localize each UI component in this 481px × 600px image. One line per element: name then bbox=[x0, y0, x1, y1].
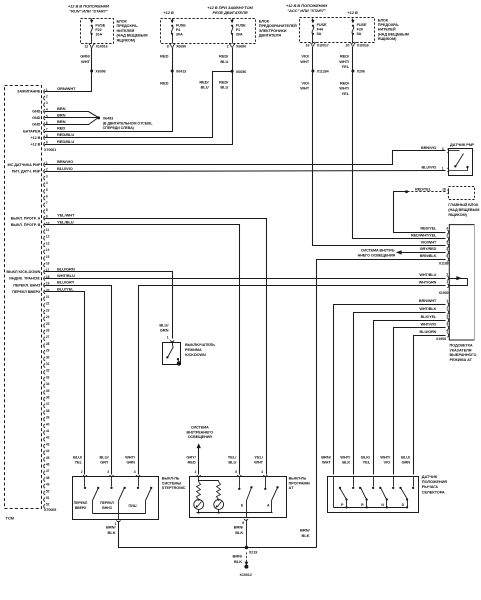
svg-text:YEL: YEL bbox=[342, 91, 350, 96]
svg-text:5: 5 bbox=[446, 240, 448, 244]
wire RED/BLU fuse F1 to splice X6656 bbox=[232, 48, 234, 72]
svg-text:8: 8 bbox=[46, 208, 48, 212]
wire RED/YEL to indicator unit pin4 bbox=[394, 192, 446, 233]
svg-text:YEL: YEL bbox=[363, 460, 371, 465]
selector switch D bbox=[413, 477, 415, 487]
steptronic switch box bbox=[73, 477, 159, 520]
svg-text:СИСТЕМЫ: СИСТЕМЫ bbox=[162, 481, 182, 485]
fuse box B2 (engine electronics) dashed enclosure bbox=[161, 19, 256, 44]
svg-text:2: 2 bbox=[446, 307, 448, 311]
svg-text:RED: RED bbox=[187, 460, 195, 465]
svg-text:YEL: YEL bbox=[74, 460, 82, 465]
svg-text:ВЫКЛ KICK-DOWN: ВЫКЛ KICK-DOWN bbox=[6, 270, 40, 274]
svg-text:+12 В: +12 В bbox=[30, 143, 40, 147]
kickdown case ground dot bbox=[177, 361, 181, 365]
svg-text:ИНДИК. ТРАНСМ.: ИНДИК. ТРАНСМ. bbox=[9, 277, 40, 281]
wire GRN/WHT fuse F22 to splice X6006 bbox=[91, 48, 93, 71]
wire BRN/BLK ground rail to X219 bbox=[247, 547, 317, 549]
indicator unit X1900 pin hooks bbox=[447, 276, 448, 280]
svg-text:(В ДВИГАТЕЛЬНОМ ОТСЕКЕ,: (В ДВИГАТЕЛЬНОМ ОТСЕКЕ, bbox=[103, 122, 153, 126]
svg-text:33: 33 bbox=[46, 375, 50, 379]
svg-text:X70005: X70005 bbox=[44, 508, 56, 512]
wire BRN/BLK X219 to ground (dashed) bbox=[246, 553, 248, 563]
svg-text:41: 41 bbox=[46, 429, 50, 433]
kickdown pin 1 hook bbox=[170, 340, 174, 341]
svg-text:X6656: X6656 bbox=[236, 70, 246, 74]
wire BRN ground TCM pin4 bbox=[45, 112, 99, 118]
svg-text:BLU/GRY: BLU/GRY bbox=[57, 280, 75, 285]
svg-text:F20: F20 bbox=[357, 27, 363, 31]
svg-text:СИСТЕМА: СИСТЕМА bbox=[191, 426, 209, 430]
svg-text:GND: GND bbox=[32, 110, 41, 114]
wire GRN/WHT ignition TCM pin1 bbox=[45, 71, 92, 92]
wire RED/YEL main unit pin18 (dashed) with splice bbox=[407, 191, 446, 193]
svg-text:X10016: X10016 bbox=[96, 45, 108, 49]
main unit pin 18 hook bbox=[447, 190, 448, 194]
svg-text:ВНИЗ: ВНИЗ bbox=[102, 506, 112, 510]
svg-text:BRN: BRN bbox=[57, 106, 66, 111]
connector pin 12 X10016 bbox=[89, 44, 95, 48]
svg-text:GRY/RED: GRY/RED bbox=[420, 247, 437, 251]
svg-text:ВЫКЛ-ЛЬ: ВЫКЛ-ЛЬ bbox=[162, 477, 180, 481]
svg-text:X10012: X10012 bbox=[240, 573, 252, 577]
wire BRN/BLK steptronic pin1 to X219 bbox=[119, 522, 247, 548]
indicator unit X1908 pin hooks bbox=[447, 303, 448, 307]
wire BLU/GRN TCM pin17 to kickdown switch bbox=[45, 272, 173, 339]
wire BRN/VIO TCM to PNP sensor pin3 bbox=[45, 151, 446, 165]
LED lamp 2 bbox=[214, 500, 224, 510]
svg-text:FUSE: FUSE bbox=[176, 23, 186, 27]
svg-text:ПУШ: ПУШ bbox=[129, 504, 138, 508]
svg-text:(НАД ВЕЩЕВЫМ: (НАД ВЕЩЕВЫМ bbox=[117, 34, 148, 38]
wire BRN ground TCM pin5 bbox=[45, 117, 99, 119]
svg-text:BRN/BLK: BRN/BLK bbox=[420, 254, 437, 258]
selector switch R bbox=[373, 477, 375, 487]
svg-text:TCM: TCM bbox=[6, 516, 15, 521]
svg-text:ЗАЖИГАНИЕ: ЗАЖИГАНИЕ bbox=[17, 90, 41, 94]
svg-text:BRN/: BRN/ bbox=[300, 528, 310, 533]
svg-text:2: 2 bbox=[227, 45, 229, 49]
steptronic switch shift-up bbox=[84, 477, 86, 487]
svg-text:FUSE: FUSE bbox=[95, 23, 105, 27]
svg-text:GRN: GRN bbox=[160, 328, 169, 333]
splice X6413 bbox=[171, 70, 174, 73]
svg-text:5A: 5A bbox=[317, 32, 322, 36]
svg-text:+12 В: +12 В bbox=[347, 10, 358, 15]
svg-text:46: 46 bbox=[46, 463, 50, 467]
svg-text:ПОДСВЕТКА: ПОДСВЕТКА bbox=[450, 344, 473, 348]
svg-text:(НАД ВЕЩЕВЫМ: (НАД ВЕЩЕВЫМ bbox=[378, 32, 409, 36]
svg-text:49: 49 bbox=[46, 483, 50, 487]
svg-text:7: 7 bbox=[46, 201, 48, 205]
svg-text:WHT: WHT bbox=[322, 460, 332, 465]
svg-text:X6690: X6690 bbox=[236, 45, 246, 49]
svg-text:3: 3 bbox=[446, 315, 448, 319]
svg-text:GND: GND bbox=[32, 123, 41, 127]
program switch pin hooks top bbox=[197, 475, 201, 476]
svg-text:1: 1 bbox=[446, 280, 448, 284]
kickdown switch box bbox=[163, 343, 181, 365]
svg-text:X6006: X6006 bbox=[95, 70, 105, 74]
svg-text:RED/BLU: RED/BLU bbox=[57, 139, 74, 144]
svg-text:FUSE: FUSE bbox=[317, 23, 327, 27]
wire WHT/VIO indicator X1908 to selector position sensor bbox=[394, 328, 446, 475]
svg-text:BLK: BLK bbox=[108, 530, 116, 535]
svg-text:47: 47 bbox=[46, 469, 50, 473]
svg-text:4: 4 bbox=[446, 226, 448, 230]
svg-text:RED: RED bbox=[160, 80, 168, 85]
svg-text:ЯЩИКОМ): ЯЩИКОМ) bbox=[378, 37, 397, 41]
splice X11284 bbox=[311, 70, 314, 73]
fuse F20 5A bbox=[352, 19, 354, 21]
wire GRY/RED interior lighting to indicator pin3 bbox=[402, 252, 446, 254]
svg-text:X6493: X6493 bbox=[103, 117, 113, 121]
svg-text:ПЕРЕКЛ: ПЕРЕКЛ bbox=[74, 501, 88, 505]
svg-text:2: 2 bbox=[446, 273, 448, 277]
selector common wire BRN/WHT into bus bbox=[333, 477, 335, 508]
selector internal bus bbox=[334, 507, 408, 509]
resistor R2 bbox=[217, 482, 221, 500]
svg-text:БЛОК: БЛОК bbox=[117, 20, 128, 24]
svg-text:X206: X206 bbox=[357, 70, 365, 74]
fuse F22 10A bbox=[91, 19, 93, 21]
svg-text:30A: 30A bbox=[236, 32, 243, 36]
svg-text:АТ: АТ bbox=[289, 486, 294, 490]
svg-text:X10016: X10016 bbox=[357, 44, 369, 48]
wire VIO/WHT splice X11284 to indicator unit pin5 bbox=[313, 71, 446, 246]
svg-text:VIO/WHT: VIO/WHT bbox=[421, 240, 437, 244]
svg-text:1: 1 bbox=[446, 299, 448, 303]
svg-text:ПЕРЕКЛ: ПЕРЕКЛ bbox=[100, 501, 114, 505]
svg-text:BRN/: BRN/ bbox=[234, 525, 244, 530]
svg-text:WHT: WHT bbox=[300, 59, 310, 64]
svg-text:3: 3 bbox=[446, 247, 448, 251]
svg-text:4: 4 bbox=[446, 322, 448, 326]
svg-text:1: 1 bbox=[442, 166, 444, 170]
connector pin 8 X6690 bbox=[169, 44, 175, 48]
svg-text:BLK: BLK bbox=[302, 533, 310, 538]
wire VIO/WHT fuse F44 to splice X11284 bbox=[312, 47, 314, 71]
svg-text:BRN/: BRN/ bbox=[106, 525, 116, 530]
steptronic switch shift-down bbox=[111, 477, 113, 487]
svg-text:ПЕРЕКЛ ВВЕРХ: ПЕРЕКЛ ВВЕРХ bbox=[12, 290, 41, 294]
svg-text:ВЫКЛ. ПРОГР. В: ВЫКЛ. ПРОГР. В bbox=[11, 223, 41, 227]
svg-text:ЯЩИКОМ): ЯЩИКОМ) bbox=[448, 213, 467, 217]
wire BLU/GRN indicator X1908 to selector position sensor bbox=[414, 336, 446, 475]
main unit dashed box (above glove box) bbox=[449, 187, 475, 200]
svg-text:БЛОК: БЛОК bbox=[259, 20, 270, 24]
svg-text:ДВИГАТЕЛЯ: ДВИГАТЕЛЯ bbox=[259, 34, 282, 38]
svg-text:СЕЛЕКТОРА: СЕЛЕКТОРА bbox=[422, 489, 445, 494]
svg-text:4: 4 bbox=[134, 470, 136, 474]
svg-text:21: 21 bbox=[46, 295, 50, 299]
svg-text:12: 12 bbox=[46, 235, 50, 239]
svg-text:12: 12 bbox=[84, 45, 88, 49]
wire BRN ground TCM pin6 bbox=[45, 118, 99, 125]
steptronic pin 1 bottom hook bbox=[117, 520, 121, 521]
program switch lamp feed bbox=[198, 477, 200, 482]
svg-text:11: 11 bbox=[46, 228, 50, 232]
svg-text:BLK: BLK bbox=[342, 460, 350, 465]
wire RED battery TCM pin7 bbox=[45, 71, 173, 132]
svg-text:YEL/BLU: YEL/BLU bbox=[57, 219, 74, 224]
svg-text:СПЕРЕДИ СЛЕВА): СПЕРЕДИ СЛЕВА) bbox=[103, 126, 135, 130]
svg-text:BRN/VIO: BRN/VIO bbox=[57, 159, 73, 164]
svg-text:VIO: VIO bbox=[384, 460, 391, 465]
svg-text:30: 30 bbox=[46, 355, 50, 359]
svg-text:10A: 10A bbox=[95, 32, 102, 36]
splice X6656 bbox=[231, 70, 234, 73]
svg-text:BRN: BRN bbox=[57, 112, 66, 117]
svg-text:РЕЖИМА АТ: РЕЖИМА АТ bbox=[450, 358, 473, 362]
svg-text:27: 27 bbox=[46, 335, 50, 339]
wire YEL/WHT TCM pin9 to program switch bbox=[45, 219, 267, 475]
svg-text:37: 37 bbox=[46, 402, 50, 406]
wire BLU/VIO TCM to PNP sensor pin1 bbox=[45, 171, 446, 172]
svg-text:14: 14 bbox=[46, 248, 50, 252]
svg-text:4: 4 bbox=[261, 470, 263, 474]
wire BRN/WHT indicator X1908 to selector position sensor bbox=[334, 305, 446, 475]
fuse box B3 (above glove box) dashed enclosure bbox=[300, 18, 375, 43]
svg-text:WHT/BLU: WHT/BLU bbox=[419, 273, 436, 277]
svg-text:38: 38 bbox=[46, 409, 50, 413]
svg-text:1: 1 bbox=[167, 336, 169, 340]
wire BLU/YEL TCM pin20 to steptronic switch bbox=[45, 292, 85, 475]
svg-text:BLK/YEL: BLK/YEL bbox=[421, 315, 437, 319]
svg-text:23: 23 bbox=[46, 308, 50, 312]
svg-text:НИТЕЛЕЙ: НИТЕЛЕЙ bbox=[117, 29, 135, 33]
svg-text:НИТЕЛЕЙ: НИТЕЛЕЙ bbox=[378, 28, 396, 32]
svg-text:2: 2 bbox=[46, 95, 48, 99]
svg-text:ДАТЧИК PNP: ДАТЧИК PNP bbox=[450, 142, 474, 147]
svg-text:F22: F22 bbox=[95, 28, 101, 32]
svg-text:22: 22 bbox=[46, 302, 50, 306]
svg-text:BLU/GRN: BLU/GRN bbox=[57, 266, 75, 271]
svg-text:BLU/GRN: BLU/GRN bbox=[420, 330, 437, 334]
svg-text:УКАЗАТЕЛЯ: УКАЗАТЕЛЯ bbox=[450, 348, 472, 352]
svg-text:BLU/YEL: BLU/YEL bbox=[57, 286, 74, 291]
svg-text:15: 15 bbox=[46, 255, 50, 259]
wire RED/WHT/YEL fuse F20 to splice X206 bbox=[352, 47, 354, 71]
LED lamp 1 bbox=[194, 500, 204, 510]
svg-text:МС ДАТЧИКА PNP: МС ДАТЧИКА PNP bbox=[8, 163, 41, 167]
selector switch N bbox=[393, 477, 395, 487]
svg-text:FUSE: FUSE bbox=[236, 23, 246, 27]
wire BRN/BLK program switch pin6 to X219 bbox=[246, 520, 248, 548]
svg-text:6: 6 bbox=[446, 254, 448, 258]
svg-text:WHT/BLU: WHT/BLU bbox=[57, 273, 75, 278]
svg-text:"ACC" ИЛИ "START": "ACC" ИЛИ "START" bbox=[287, 8, 326, 13]
svg-text:BRN: BRN bbox=[57, 119, 66, 124]
svg-text:X1900: X1900 bbox=[439, 291, 449, 295]
connector pin 16 X10017 bbox=[310, 42, 316, 46]
svg-text:ЯЩИКОМ): ЯЩИКОМ) bbox=[117, 38, 136, 42]
svg-text:СИСТЕМА ВНУТРЕ-: СИСТЕМА ВНУТРЕ- bbox=[361, 248, 396, 252]
resistor R1 bbox=[197, 482, 201, 500]
PNP sensor pin hooks and numbers bbox=[447, 149, 448, 153]
connector pin 20 X10016 bbox=[350, 42, 356, 46]
svg-text:GND: GND bbox=[32, 116, 41, 120]
steptronic pin hooks top bbox=[83, 475, 87, 476]
svg-text:25: 25 bbox=[46, 322, 50, 326]
svg-text:BRN/VIO: BRN/VIO bbox=[421, 146, 436, 150]
svg-text:ВЫКЛ-ЛЬ: ВЫКЛ-ЛЬ bbox=[289, 477, 307, 481]
svg-text:2: 2 bbox=[194, 470, 196, 474]
svg-text:34: 34 bbox=[46, 382, 50, 386]
wire BRN/BLK indicator pin6 to ground rail bbox=[317, 260, 446, 548]
svg-text:5A: 5A bbox=[357, 32, 362, 36]
connector pin 2 X6690 bbox=[229, 44, 235, 48]
svg-text:WHT: WHT bbox=[300, 86, 310, 91]
svg-text:GRN: GRN bbox=[126, 460, 135, 465]
svg-text:BLK: BLK bbox=[234, 559, 242, 564]
selector switch P bbox=[353, 477, 355, 487]
svg-text:+12 В: +12 В bbox=[30, 136, 40, 140]
program switch pin 6 bottom hook bbox=[244, 519, 248, 520]
svg-text:BRN/: BRN/ bbox=[233, 554, 243, 559]
program switch internal bus bbox=[197, 512, 273, 514]
svg-text:3: 3 bbox=[46, 101, 48, 105]
svg-text:ОСВЕЩЕНИЯ: ОСВЕЩЕНИЯ bbox=[188, 435, 213, 439]
svg-text:WHT/BLK: WHT/BLK bbox=[419, 307, 436, 311]
wire WHT/BLU TCM pin18 to indicator unit pin2 bbox=[45, 278, 446, 280]
svg-text:5: 5 bbox=[446, 330, 448, 334]
svg-text:26: 26 bbox=[46, 329, 50, 333]
svg-text:ВНУТРЕННЕГО: ВНУТРЕННЕГО bbox=[186, 430, 213, 434]
svg-text:3: 3 bbox=[442, 147, 444, 151]
svg-text:36: 36 bbox=[46, 396, 50, 400]
svg-text:РЕЛЕ ДВИГАТЕЛЯ: РЕЛЕ ДВИГАТЕЛЯ bbox=[212, 10, 247, 15]
svg-text:ПРЕДОХРА-: ПРЕДОХРА- bbox=[117, 24, 139, 28]
wire GRY/RED program switch pin2 from interior lighting bbox=[198, 448, 200, 475]
svg-text:16: 16 bbox=[306, 44, 310, 48]
svg-text:BLU: BLU bbox=[228, 460, 236, 465]
svg-text:X6413: X6413 bbox=[176, 70, 186, 74]
svg-text:44: 44 bbox=[46, 449, 50, 453]
svg-text:X6690: X6690 bbox=[176, 45, 186, 49]
svg-text:RED: RED bbox=[160, 54, 168, 59]
steptronic switch push bbox=[138, 477, 140, 487]
PNP sensor switch bbox=[449, 150, 460, 152]
splice X206 bbox=[351, 70, 354, 73]
svg-text:GRN/WHT: GRN/WHT bbox=[57, 86, 76, 91]
svg-text:ЭЛЕКТРОНИКИ: ЭЛЕКТРОНИКИ bbox=[259, 29, 287, 33]
indicator unit X1188 pin hooks bbox=[447, 230, 448, 234]
wire RED/WHT/YEL splice X206 to indicator unit pin2 bbox=[353, 71, 446, 239]
svg-text:ВЫКЛ. ПРОГР. А: ВЫКЛ. ПРОГР. А bbox=[11, 216, 41, 220]
svg-text:ВВЕРХ: ВВЕРХ bbox=[75, 506, 87, 510]
AT program switch box bbox=[190, 477, 287, 518]
svg-text:ПРЕДОХРА-: ПРЕДОХРА- bbox=[378, 23, 400, 27]
svg-text:BLU/VIO: BLU/VIO bbox=[421, 165, 436, 169]
svg-text:RED: RED bbox=[57, 126, 65, 131]
svg-text:42: 42 bbox=[46, 436, 50, 440]
svg-text:24: 24 bbox=[46, 315, 50, 319]
svg-text:ННЕГО ОСВЕЩЕНИЯ: ННЕГО ОСВЕЩЕНИЯ bbox=[358, 254, 396, 258]
wire YEL/BLU TCM pin10 to program switch bbox=[45, 225, 240, 475]
wire RED fuse F4 to splice X6413 bbox=[172, 48, 174, 71]
svg-text:6: 6 bbox=[46, 195, 48, 199]
svg-text:BLU: BLU bbox=[201, 85, 209, 90]
svg-text:F44: F44 bbox=[317, 27, 324, 31]
fuse F1 30A bbox=[232, 19, 234, 21]
svg-text:GRY: GRY bbox=[100, 460, 109, 465]
steptronic internal bus bbox=[93, 513, 146, 515]
svg-text:50: 50 bbox=[46, 489, 50, 493]
program switch A contact bbox=[265, 477, 267, 488]
svg-text:ПРЕДОХРАНИТЕЛЕЙ: ПРЕДОХРАНИТЕЛЕЙ bbox=[259, 24, 297, 28]
svg-text:БЛОК: БЛОК bbox=[378, 18, 389, 22]
svg-text:30A: 30A bbox=[176, 32, 183, 36]
svg-text:X10017: X10017 bbox=[317, 44, 329, 48]
wire RED/BLU TCM pin9 bbox=[45, 72, 233, 145]
AT mode indicator unit box bbox=[449, 225, 474, 340]
svg-text:ГЛАВНЫЙ БЛОК: ГЛАВНЫЙ БЛОК bbox=[448, 203, 479, 207]
svg-text:GRN: GRN bbox=[401, 460, 410, 465]
svg-text:RED/WHT/YEL: RED/WHT/YEL bbox=[411, 233, 437, 237]
svg-text:51: 51 bbox=[46, 496, 50, 500]
wire RED/BLU TCM pin8 bbox=[45, 72, 233, 138]
svg-text:FUSE: FUSE bbox=[357, 23, 367, 27]
svg-text:"RUN" ИЛИ "START": "RUN" ИЛИ "START" bbox=[69, 9, 108, 14]
svg-text:20: 20 bbox=[346, 44, 350, 48]
svg-text:WHT/GRN: WHT/GRN bbox=[419, 280, 437, 284]
svg-text:39: 39 bbox=[46, 416, 50, 420]
wire BLK/YEL indicator X1908 to selector position sensor bbox=[374, 321, 446, 475]
svg-text:ПИТ. ДАТЧ. PNP: ПИТ. ДАТЧ. PNP bbox=[12, 170, 41, 174]
svg-text:RED/YEL: RED/YEL bbox=[420, 226, 437, 230]
svg-text:X219: X219 bbox=[249, 551, 257, 555]
svg-text:3: 3 bbox=[107, 470, 109, 474]
svg-text:2: 2 bbox=[81, 470, 83, 474]
svg-text:28: 28 bbox=[46, 342, 50, 346]
svg-text:43: 43 bbox=[46, 442, 50, 446]
svg-text:ВЫКЛЮЧАТЕЛЬ: ВЫКЛЮЧАТЕЛЬ bbox=[185, 343, 215, 347]
svg-text:X1908: X1908 bbox=[436, 337, 446, 341]
junction X219 bbox=[245, 546, 249, 550]
svg-text:16: 16 bbox=[46, 262, 50, 266]
svg-text:40: 40 bbox=[46, 422, 50, 426]
wire BLU/GRY TCM pin19 to steptronic switch bbox=[45, 286, 112, 475]
svg-text:32: 32 bbox=[46, 369, 50, 373]
program switch E contact bbox=[239, 477, 241, 488]
svg-text:ПРОГРАММ: ПРОГРАММ bbox=[289, 481, 310, 485]
svg-text:BLU: BLU bbox=[220, 59, 228, 64]
svg-text:WHT: WHT bbox=[254, 460, 264, 465]
svg-text:BLU: BLU bbox=[220, 85, 228, 90]
svg-text:X11284: X11284 bbox=[317, 70, 330, 74]
svg-text:ПЕРЕКЛ. ВНИЗ: ПЕРЕКЛ. ВНИЗ bbox=[13, 283, 41, 287]
svg-text:YEL: YEL bbox=[342, 64, 350, 69]
svg-text:13: 13 bbox=[46, 241, 50, 245]
svg-text:52: 52 bbox=[46, 503, 50, 507]
svg-text:BLK: BLK bbox=[235, 530, 243, 535]
svg-text:BRN/WHT: BRN/WHT bbox=[419, 299, 437, 303]
svg-text:STEPTRONIC: STEPTRONIC bbox=[162, 486, 186, 490]
svg-text:РЕЖИМА: РЕЖИМА bbox=[185, 348, 202, 352]
svg-text:5: 5 bbox=[46, 188, 48, 192]
selector position sensor box bbox=[328, 477, 419, 513]
svg-text:BLU/VIO: BLU/VIO bbox=[57, 166, 73, 171]
svg-text:ВЫБРАННОГО: ВЫБРАННОГО bbox=[450, 353, 477, 357]
svg-text:4: 4 bbox=[46, 181, 48, 185]
TCM module dashed enclosure bbox=[5, 86, 42, 509]
svg-text:WHT: WHT bbox=[81, 59, 91, 64]
TCM connector pin hooks X70001/X70005 bbox=[44, 90, 45, 94]
PNP sensor box bbox=[449, 149, 473, 176]
ground splice X6493 bbox=[97, 116, 100, 119]
svg-text:3: 3 bbox=[46, 174, 48, 178]
